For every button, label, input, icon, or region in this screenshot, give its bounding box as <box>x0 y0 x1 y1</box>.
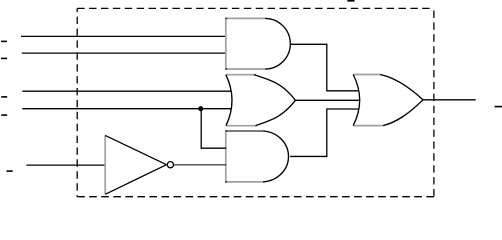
or-gate U5 body back <box>353 75 383 126</box>
inverter U4 triangle <box>105 135 166 194</box>
top edge text fragment <box>347 0 354 2</box>
wire U2 output to U5 <box>296 99 360 101</box>
output wire F <box>423 99 476 101</box>
and-gate U1 body back <box>226 18 265 69</box>
or-gate U5 front <box>380 75 423 126</box>
input tick x3 <box>1 96 7 98</box>
or-gate U5 concave <box>353 75 360 126</box>
and-gate U1 arc <box>265 18 290 69</box>
dashed enclosure border top <box>77 7 434 9</box>
and-gate U3 body back <box>226 131 263 182</box>
input wire x4 <box>22 108 231 110</box>
junction node on x4 <box>198 106 203 111</box>
input tick x2 <box>1 57 7 59</box>
inverter U4 back edge <box>104 135 106 194</box>
and-gate U3 corner joints <box>226 130 228 132</box>
dashed enclosure border left <box>76 8 78 196</box>
or-gate U2 concave <box>226 75 232 126</box>
dashed enclosure border bottom <box>77 196 434 198</box>
and-gate U3 arc <box>263 131 288 182</box>
wire U1 output to U5 <box>290 44 359 91</box>
input wire x2 <box>22 52 226 54</box>
dashed enclosure border right <box>433 8 435 196</box>
or-gate U2 front <box>254 75 296 126</box>
wire junction branch to U3 input <box>201 109 226 149</box>
input tick x4 <box>1 114 7 116</box>
input wire x1 <box>21 35 226 37</box>
and-gate U1 corner joints <box>226 18 228 20</box>
input wire x5 to inverter <box>26 164 105 166</box>
output tick F <box>495 106 502 108</box>
or-gate U2 body back <box>226 75 257 126</box>
wire U3 output to U5 <box>290 109 359 156</box>
input tick x5 <box>7 170 13 172</box>
inverter U4 bubble <box>167 162 173 168</box>
input tick x1 <box>1 40 7 42</box>
and-gate U3 top edge dark core <box>226 130 263 132</box>
input wire x3 <box>22 90 231 92</box>
wire inverter output to U3 <box>174 164 226 166</box>
